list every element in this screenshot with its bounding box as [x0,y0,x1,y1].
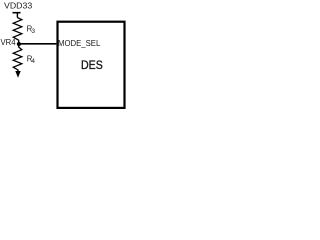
svg-text:4: 4 [31,58,35,65]
svg-text:3: 3 [32,28,36,35]
power symbol VDD33 bar [13,13,21,18]
svg-text:DES: DES [81,58,103,72]
svg-text:MODE_SEL: MODE_SEL [58,39,101,48]
IC box DES [58,22,125,108]
label R3 [27,25,36,36]
resistor R4 [13,44,21,70]
wire VR4 to MODE_SEL [19,43,56,45]
resistor R3 [13,18,21,45]
junction dot node VR4 [17,42,21,46]
svg-text:VDD33: VDD33 [4,1,32,11]
svg-text:VR4: VR4 [1,38,17,47]
ground arrow [15,70,20,78]
label R4 [27,55,36,65]
